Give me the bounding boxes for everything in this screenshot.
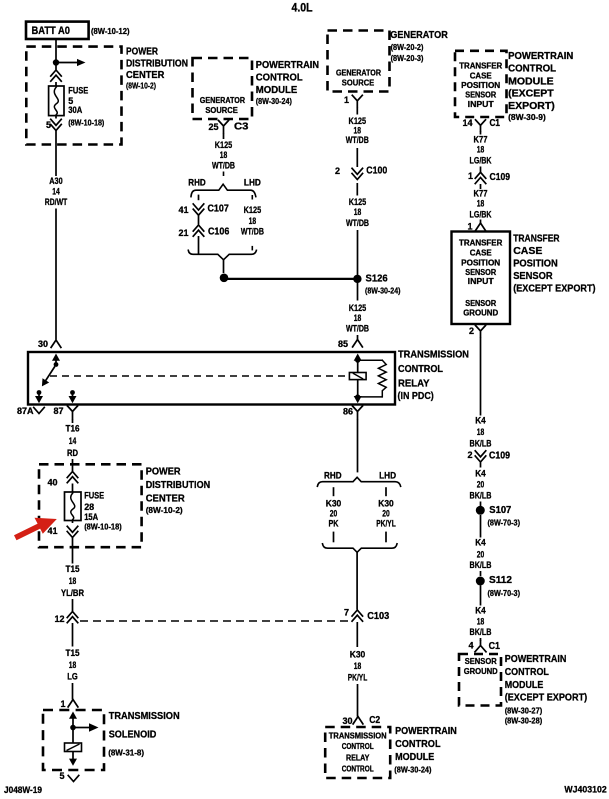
label POWER DISTRIBUTION CENTER (8W-10-2) #2	[146, 466, 211, 515]
pin 1 label (C109)	[468, 171, 473, 181]
svg-text:GENERATOR: GENERATOR	[390, 29, 448, 41]
in-line connector (PDC fuse 5 input)	[51, 70, 62, 81]
svg-text:SOLENOID: SOLENOID	[109, 729, 157, 741]
svg-text:T16: T16	[66, 424, 80, 435]
wire label T16 14 RD	[66, 424, 80, 459]
svg-text:(IN PDC): (IN PDC)	[398, 390, 434, 402]
relay control dashed line	[50, 375, 348, 377]
pin 14 label (C1)	[462, 118, 472, 128]
pin 87 connector	[68, 406, 78, 419]
wire relay 87 to label T16	[72, 419, 74, 423]
svg-text:K125: K125	[244, 205, 262, 216]
battery feed box BATT A0	[26, 22, 89, 39]
in-line connector (PDC fuse 5 output)	[51, 119, 62, 130]
transfer case position sensor box	[452, 232, 511, 325]
relay common terminal arrow (pin 30)	[52, 354, 60, 364]
pin 7 label (C103)	[344, 607, 349, 617]
svg-text:85: 85	[338, 339, 348, 349]
pin 21 label (C106)	[178, 228, 188, 238]
connector C3 pin 25	[219, 121, 229, 133]
connector name C109 #2	[489, 451, 510, 462]
svg-text:MODULE: MODULE	[256, 84, 297, 96]
solenoid junction dot	[70, 725, 76, 731]
svg-text:CONTROL: CONTROL	[505, 666, 550, 678]
svg-text:GENERATOR: GENERATOR	[200, 96, 245, 105]
svg-text:RD/WT: RD/WT	[45, 197, 68, 208]
svg-text:CASE: CASE	[470, 249, 493, 258]
svg-text:MODULE: MODULE	[508, 75, 554, 87]
wire label K4 20 BK/LB #2	[470, 538, 492, 572]
svg-text:POWERTRAIN: POWERTRAIN	[395, 725, 457, 737]
pin 87A connector	[34, 408, 45, 414]
wire stub K30 RHD (bottom)	[333, 532, 335, 543]
svg-text:T15: T15	[66, 648, 81, 659]
svg-text:18: 18	[354, 661, 362, 672]
svg-text:1: 1	[344, 95, 349, 105]
wire C1 to label K77	[480, 131, 482, 135]
wire BK/LB to splice S107	[480, 502, 482, 507]
svg-text:POWERTRAIN: POWERTRAIN	[256, 59, 319, 71]
connector name C100	[366, 165, 387, 176]
svg-text:MODULE: MODULE	[505, 679, 544, 691]
wire S112 to label K4	[480, 586, 482, 606]
pin 41 label	[47, 526, 57, 536]
relay coil K1	[349, 373, 366, 380]
connector name C1 #2	[489, 641, 501, 652]
svg-text:TRANSFER: TRANSFER	[513, 232, 560, 244]
svg-text:18: 18	[69, 576, 77, 587]
connector name C106	[208, 227, 230, 238]
svg-text:87: 87	[53, 406, 63, 416]
wire LG/BK to C109	[480, 167, 482, 173]
splice S126	[353, 275, 361, 283]
wire C3 to label K125	[223, 133, 225, 139]
svg-text:K4: K4	[475, 469, 486, 480]
svg-text:14: 14	[52, 187, 60, 198]
label POWER DISTRIBUTION CENTER (8W-10-2)	[126, 46, 188, 91]
svg-text:25: 25	[208, 122, 218, 132]
svg-text:BK/LB: BK/LB	[470, 560, 492, 571]
wire junction to solenoid coil	[72, 730, 74, 743]
svg-text:18: 18	[69, 660, 77, 671]
svg-text:C1: C1	[489, 641, 501, 652]
svg-text:SENSOR: SENSOR	[465, 268, 496, 277]
label GENERATOR (8W-20-2) (8W-20-3)	[390, 29, 448, 63]
svg-text:WT/DB: WT/DB	[346, 218, 369, 229]
svg-text:POSITION: POSITION	[461, 81, 500, 90]
svg-text:K4: K4	[475, 416, 486, 427]
wire S126 to label K125 #3	[357, 283, 359, 301]
splice split brace (C3 branch)	[191, 184, 256, 196]
connector C1 pin 4	[475, 641, 486, 652]
svg-text:14: 14	[462, 118, 472, 128]
svg-text:S107: S107	[489, 505, 511, 516]
wire connector 12 to label T15 LG	[72, 623, 74, 647]
svg-text:SENSOR: SENSOR	[465, 90, 496, 99]
svg-text:RELAY: RELAY	[398, 377, 430, 389]
svg-text:C109: C109	[489, 451, 510, 462]
connector C2 pin 30	[353, 717, 363, 724]
wire junction to splice S126	[224, 278, 354, 280]
svg-text:INPUT: INPUT	[468, 277, 494, 286]
pin 12 label	[54, 614, 64, 624]
wire sensor ground down	[480, 338, 482, 416]
wire C100 to label K125 #2	[356, 183, 358, 196]
svg-text:C100: C100	[366, 165, 387, 176]
wire arrow to solenoid junction	[72, 716, 74, 725]
svg-text:CASE: CASE	[470, 71, 493, 80]
connector name C2	[369, 715, 380, 726]
svg-text:TRANSMISSION: TRANSMISSION	[109, 710, 180, 722]
svg-text:RELAY: RELAY	[346, 754, 370, 763]
wire label T15 18 LG	[66, 648, 81, 683]
wire label K30 20 PK (RHD)	[326, 498, 342, 529]
splice S107	[476, 506, 485, 515]
title 4.0L	[292, 3, 313, 15]
svg-text:SOURCE: SOURCE	[342, 79, 375, 88]
pin 40 label	[47, 478, 57, 488]
svg-text:EXPORT): EXPORT)	[508, 100, 555, 112]
svg-text:(8W-30-28): (8W-30-28)	[505, 715, 543, 725]
wire WT/DB to splice S126	[357, 230, 359, 276]
svg-text:4.0L: 4.0L	[292, 3, 313, 15]
wire fuse 28 output to label T15	[72, 538, 74, 564]
svg-text:C109: C109	[490, 172, 511, 183]
wire BK/LB to splice S112	[480, 571, 482, 576]
wire label K125 18 WT/DB (generator)	[346, 116, 369, 146]
svg-text:CONTROL: CONTROL	[256, 72, 303, 84]
pin 30 label	[38, 339, 48, 349]
splice name S126	[366, 273, 389, 284]
svg-text:87A: 87A	[17, 406, 34, 416]
svg-text:DISTRIBUTION: DISTRIBUTION	[126, 57, 188, 69]
pin 2 label (C109)	[467, 450, 472, 460]
label LHD (right branch)	[244, 177, 261, 188]
svg-text:SENSOR: SENSOR	[465, 657, 497, 666]
relay coil output arrow (pin 86)	[354, 396, 362, 403]
svg-text:2: 2	[469, 326, 474, 336]
wire connector to fuse 28	[72, 484, 74, 493]
svg-text:(8W-10-18): (8W-10-18)	[84, 522, 122, 532]
svg-text:WT/DB: WT/DB	[346, 324, 369, 335]
svg-text:(8W-10-2): (8W-10-2)	[126, 80, 156, 90]
red annotation arrow pointing at fuse 28	[14, 518, 57, 541]
pin 41 label (C107)	[178, 205, 188, 215]
wire connector to fuse 5	[55, 82, 57, 87]
generator box (dashed)	[328, 31, 390, 92]
wire stub RHD branch	[198, 195, 200, 201]
svg-text:RHD: RHD	[188, 177, 206, 188]
svg-text:GROUND: GROUND	[464, 667, 498, 676]
in-line connector 12	[67, 612, 78, 623]
wire label K4 18 BK/LB	[470, 416, 492, 450]
connector name C109	[490, 172, 511, 183]
label POWERTRAIN CONTROL MODULE (8W-30-24) #2	[394, 725, 457, 774]
dashed stub LHD branch (bottom)	[251, 246, 253, 252]
solenoid coil L1	[65, 743, 82, 752]
svg-text:18: 18	[220, 150, 228, 161]
svg-text:4: 4	[468, 641, 473, 651]
transmission control relay box	[28, 352, 395, 405]
svg-text:LG/BK: LG/BK	[470, 155, 492, 166]
wire label K4 20 BK/LB	[470, 469, 492, 502]
relay 87A terminal dot	[37, 390, 42, 395]
svg-text:86: 86	[343, 407, 353, 417]
junction dot (PCM branch)	[220, 274, 229, 283]
wire label K77 18 LG/BK	[470, 134, 492, 166]
solenoid input arrow	[69, 712, 77, 719]
dashed stub LHD branch (top)	[251, 195, 253, 203]
label LHD (middle split)	[379, 471, 396, 482]
svg-text:FUSE: FUSE	[84, 491, 104, 501]
svg-text:40: 40	[47, 478, 57, 488]
pin 87 label	[53, 406, 63, 416]
svg-text:GENERATOR: GENERATOR	[336, 69, 381, 78]
svg-text:(EXCEPT: (EXCEPT	[508, 88, 554, 100]
svg-text:K4: K4	[475, 606, 486, 617]
wire label K125 18 WT/DB (C3 branch)	[212, 140, 235, 172]
svg-text:POWER: POWER	[146, 466, 181, 478]
label TRANSMISSION CONTROL RELAY (IN PDC)	[398, 349, 470, 402]
svg-text:(EXCEPT EXPORT): (EXCEPT EXPORT)	[513, 283, 595, 295]
wire YL/BR to in-line connector 12	[72, 599, 74, 611]
splice name S112	[489, 575, 512, 586]
wire label K125 18 WT/DB #2	[346, 197, 369, 229]
splice name S107	[489, 505, 511, 516]
svg-text:K30: K30	[350, 650, 366, 661]
svg-text:(8W-10-2): (8W-10-2)	[146, 505, 183, 515]
svg-text:SENSOR: SENSOR	[465, 299, 496, 308]
svg-text:LHD: LHD	[244, 177, 261, 188]
pin 1 label (generator)	[344, 95, 349, 105]
svg-text:BK/LB: BK/LB	[470, 491, 492, 502]
power distribution center box (dashed) PDC2	[39, 464, 142, 547]
svg-text:RD: RD	[67, 448, 78, 459]
svg-text:7: 7	[344, 607, 349, 617]
svg-text:1: 1	[60, 699, 65, 709]
pin 2 label (C100)	[335, 166, 340, 176]
svg-text:INPUT: INPUT	[468, 100, 494, 109]
reference (8W-30-24) of S126	[365, 286, 401, 296]
wire fuse output to label A30	[55, 131, 57, 177]
svg-text:DISTRIBUTION: DISTRIBUTION	[146, 479, 211, 491]
powertrain control module box (dashed) sensor ground	[459, 654, 501, 706]
wire BK/LB to C1 pin 4	[480, 638, 482, 641]
svg-text:(8W-70-3): (8W-70-3)	[488, 588, 521, 598]
power distribution center box (dashed) PDC1	[26, 47, 121, 145]
svg-text:(EXCEPT EXPORT): (EXCEPT EXPORT)	[505, 692, 588, 704]
svg-text:BK/LB: BK/LB	[470, 439, 492, 450]
connector name C3	[234, 122, 249, 133]
svg-text:CENTER: CENTER	[146, 493, 185, 505]
label RHD (middle split)	[324, 471, 342, 482]
feed arrow to other circuits	[58, 59, 86, 66]
in-line connector C106	[193, 225, 204, 236]
wire C109 to label K4	[480, 463, 482, 468]
svg-text:18: 18	[477, 199, 485, 210]
junction dot in PDC1	[53, 59, 59, 65]
wire label T15 18 YL/BR	[61, 564, 84, 599]
svg-text:SENSOR: SENSOR	[513, 270, 553, 282]
splice merge brace (K30)	[323, 544, 398, 553]
wire WT/DB to C100	[356, 148, 358, 167]
reference (8W-70-3) of S112	[488, 588, 521, 598]
svg-text:MODULE: MODULE	[395, 751, 434, 763]
relay coil input arrow (pin 85)	[354, 354, 362, 361]
pin 5 connector (solenoid)	[68, 776, 79, 782]
svg-text:TRANSMISSION: TRANSMISSION	[329, 732, 387, 741]
powertrain control module box (dashed) relay control	[325, 727, 390, 778]
svg-text:LHD: LHD	[379, 471, 396, 482]
pin 30 connector	[51, 340, 61, 347]
wire merge to junction dot	[223, 260, 225, 273]
pin 1 connector (sensor)	[476, 223, 486, 230]
svg-text:S126: S126	[366, 273, 389, 284]
wire C109 to label K77 #2	[480, 184, 482, 189]
connector name C1	[490, 118, 501, 129]
svg-text:LG/BK: LG/BK	[470, 209, 492, 220]
svg-text:21: 21	[178, 228, 188, 238]
relay 87A terminal arrow	[35, 395, 43, 404]
relay coil top dot	[355, 358, 360, 363]
wire label K125 18 WT/DB (LHD branch)	[241, 205, 264, 238]
connector name C107	[208, 203, 230, 214]
svg-text:18: 18	[477, 144, 485, 155]
svg-text:12: 12	[54, 614, 64, 624]
svg-text:C2: C2	[369, 715, 380, 726]
svg-text:(8W-30-9): (8W-30-9)	[508, 112, 546, 122]
wire coil top to coil	[357, 362, 359, 373]
svg-text:(8W-70-3): (8W-70-3)	[488, 518, 521, 528]
svg-text:BATT A0: BATT A0	[32, 25, 71, 37]
pin 1 label (sensor input)	[467, 222, 472, 232]
svg-text:(8W-10-12): (8W-10-12)	[91, 26, 130, 36]
svg-text:(8W-20-2): (8W-20-2)	[391, 42, 424, 52]
svg-text:C103: C103	[367, 611, 389, 622]
svg-text:PK: PK	[329, 519, 339, 530]
wire relay pin 86 down	[357, 420, 359, 473]
wire merge to C103	[356, 552, 358, 609]
pin 5 label (solenoid)	[59, 771, 64, 781]
svg-text:TRANSFER: TRANSFER	[459, 239, 503, 248]
svg-text:WJ403102: WJ403102	[564, 785, 606, 796]
svg-text:(8W-20-3): (8W-20-3)	[391, 53, 424, 63]
label TRANSMISSION SOLENOID (8W-31-8)	[108, 710, 180, 758]
footer sheet code J048W-19	[4, 785, 42, 796]
svg-text:18: 18	[477, 617, 485, 628]
svg-text:30: 30	[38, 339, 48, 349]
svg-text:CONTROL: CONTROL	[342, 742, 374, 751]
svg-text:J048W-19: J048W-19	[4, 785, 42, 796]
svg-text:FUSE: FUSE	[68, 86, 88, 96]
relay 87 terminal arrow	[69, 395, 77, 404]
pin 1 label (solenoid)	[60, 699, 65, 709]
value label FUSE 28 15A (8W-10-18)	[84, 491, 122, 532]
in-line connector (fuse 28 output) pin 41	[67, 526, 78, 537]
wire label K4 18 BK/LB #2	[470, 606, 492, 639]
wire C103 to label K30	[356, 622, 358, 647]
svg-text:POWER: POWER	[126, 46, 158, 58]
splice S112	[476, 577, 485, 586]
svg-text:5: 5	[59, 771, 64, 781]
solenoid output arrow	[69, 752, 77, 766]
svg-text:C107: C107	[208, 203, 230, 214]
wire fuse 5 to output connector	[55, 116, 57, 119]
reference (8W-70-3) of S107	[488, 518, 521, 528]
wire label A30 14 RD/WT	[45, 176, 68, 208]
pin 4 label (C1)	[468, 641, 473, 651]
svg-text:CONTROL: CONTROL	[508, 63, 557, 75]
label POWERTRAIN CONTROL MODULE (8W-30-24)	[256, 59, 319, 106]
relay switch common dot	[54, 362, 59, 367]
in-line connector C109 (pin 1)	[475, 172, 486, 183]
footer sheet code WJ403102	[564, 785, 606, 796]
svg-text:C1: C1	[490, 118, 501, 129]
solenoid feed arrow right	[76, 723, 99, 732]
svg-text:POWERTRAIN: POWERTRAIN	[508, 50, 573, 62]
svg-text:14: 14	[69, 436, 77, 447]
wire LG to solenoid pin 1	[72, 683, 74, 700]
wire label K125 18 WT/DB #3	[346, 303, 369, 335]
fuse F5 30A	[49, 86, 64, 116]
label POWERTRAIN CONTROL MODULE (EXCEPT EXPORT) (8W-30-27) (8W-30-28)	[505, 653, 588, 725]
pin 2 connector (sensor)	[476, 326, 486, 338]
svg-text:(8W-30-24): (8W-30-24)	[394, 765, 431, 775]
in-line connector (fuse 28 input) pin 40	[67, 472, 78, 483]
in-line connector C109 (pin 2)	[475, 451, 486, 462]
splice split brace (K30)	[317, 477, 400, 486]
pin 86 connector	[353, 406, 363, 419]
svg-text:C106: C106	[208, 227, 230, 238]
svg-text:CASE: CASE	[513, 245, 542, 257]
svg-text:POSITION: POSITION	[461, 258, 500, 267]
svg-text:YL/BR: YL/BR	[61, 588, 84, 599]
svg-text:WT/DB: WT/DB	[212, 161, 235, 172]
splice merge brace (C3 branch)	[188, 250, 256, 259]
svg-text:TRANSMISSION: TRANSMISSION	[398, 349, 469, 361]
svg-text:SOURCE: SOURCE	[205, 106, 238, 115]
svg-text:(8W-30-24): (8W-30-24)	[365, 286, 401, 296]
in-line connector C100	[352, 168, 363, 179]
pin 1 connector (solenoid)	[68, 700, 78, 707]
wire stub K30 LHD (top)	[385, 487, 387, 496]
wire label K30 18 PK/YL	[348, 650, 368, 684]
wire fuse 28 to output connector	[72, 521, 74, 524]
wire label K77 18 LG/BK #2	[470, 189, 492, 221]
svg-text:POSITION: POSITION	[513, 258, 558, 270]
in-line connector C103	[352, 610, 363, 621]
wire A30 to relay pin 30	[55, 209, 57, 340]
dashed branch line from connector 12 to C103	[80, 620, 349, 622]
transmission solenoid box (dashed)	[43, 710, 104, 770]
label RHD (left branch)	[188, 177, 206, 188]
svg-text:(8W-30-27): (8W-30-27)	[505, 705, 543, 715]
powertrain control module box (dashed) TC position sensor input	[455, 51, 507, 117]
wire LG/BK to sensor pin 1	[480, 220, 482, 224]
pin 5 label	[46, 120, 51, 130]
pin 85 connector	[353, 340, 363, 347]
svg-text:18: 18	[477, 427, 485, 438]
svg-text:(8W-30-24): (8W-30-24)	[256, 96, 292, 106]
pin 2 label (sensor ground)	[469, 326, 474, 336]
wire S107 to label K4	[480, 515, 482, 538]
svg-text:C3: C3	[234, 122, 249, 133]
svg-text:1: 1	[468, 171, 473, 181]
svg-text:30A: 30A	[68, 105, 82, 115]
svg-text:20: 20	[477, 480, 485, 491]
wire between C107 and C106	[198, 216, 200, 225]
connector C1 pin 14	[476, 120, 486, 131]
